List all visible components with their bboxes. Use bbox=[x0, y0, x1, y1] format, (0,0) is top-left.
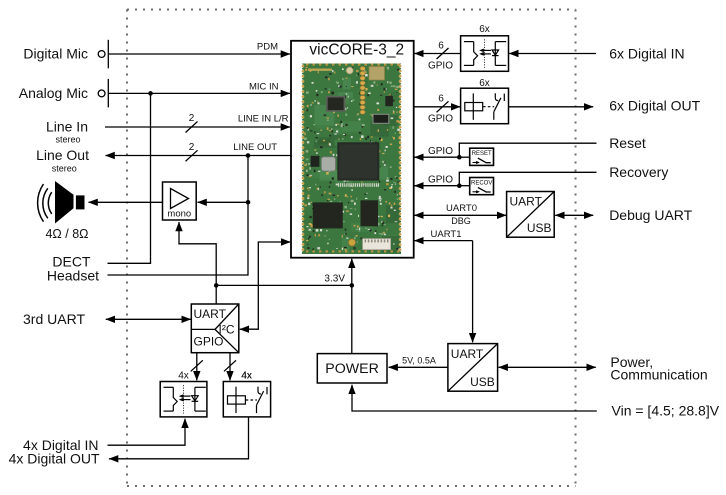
svg-text:Debug UART: Debug UART bbox=[609, 207, 692, 223]
svg-text:MIC IN: MIC IN bbox=[249, 82, 279, 93]
svg-text:stereo: stereo bbox=[52, 164, 77, 174]
svg-text:UART: UART bbox=[510, 195, 543, 209]
svg-text:Digital Mic: Digital Mic bbox=[23, 46, 88, 62]
svg-text:3.3V: 3.3V bbox=[324, 274, 345, 285]
svg-text:Communication: Communication bbox=[610, 366, 707, 382]
svg-text:LINE IN L/R: LINE IN L/R bbox=[238, 114, 289, 125]
svg-text:UART0: UART0 bbox=[446, 203, 477, 214]
svg-text:USB: USB bbox=[527, 221, 552, 235]
svg-text:6: 6 bbox=[438, 94, 444, 105]
svg-text:6x Digital IN: 6x Digital IN bbox=[609, 46, 684, 62]
svg-text:6x Digital OUT: 6x Digital OUT bbox=[609, 98, 700, 114]
svg-text:UART: UART bbox=[451, 347, 484, 361]
svg-text:6: 6 bbox=[438, 41, 444, 52]
svg-text:Recovery: Recovery bbox=[609, 164, 668, 180]
svg-text:UART: UART bbox=[194, 307, 227, 321]
svg-text:RECOV: RECOV bbox=[471, 181, 492, 187]
svg-text:4x Digital OUT: 4x Digital OUT bbox=[9, 451, 100, 467]
svg-text:3rd UART: 3rd UART bbox=[23, 311, 85, 327]
svg-text:GPIO: GPIO bbox=[428, 146, 453, 157]
svg-text:LINE OUT: LINE OUT bbox=[233, 142, 277, 153]
svg-text:I²C: I²C bbox=[219, 323, 235, 337]
svg-text:Line Out: Line Out bbox=[36, 147, 89, 163]
svg-text:5V, 0.5A: 5V, 0.5A bbox=[402, 355, 436, 365]
svg-text:USB: USB bbox=[470, 375, 495, 389]
svg-text:4x: 4x bbox=[178, 371, 189, 382]
svg-text:DBG: DBG bbox=[451, 216, 471, 226]
svg-text:vicCORE-3_2: vicCORE-3_2 bbox=[309, 41, 404, 58]
svg-text:PDM: PDM bbox=[257, 42, 278, 53]
svg-text:mono: mono bbox=[167, 209, 191, 220]
svg-text:4x: 4x bbox=[241, 371, 252, 382]
svg-text:2: 2 bbox=[189, 113, 195, 124]
svg-text:6x: 6x bbox=[479, 78, 490, 89]
svg-text:2: 2 bbox=[189, 142, 195, 153]
svg-text:UART1: UART1 bbox=[431, 229, 462, 240]
svg-text:Headset: Headset bbox=[47, 267, 99, 283]
svg-text:stereo: stereo bbox=[55, 135, 80, 145]
svg-text:Analog Mic: Analog Mic bbox=[19, 85, 88, 101]
svg-text:GPIO: GPIO bbox=[428, 174, 453, 185]
svg-text:Vin = [4.5; 28.8]V: Vin = [4.5; 28.8]V bbox=[612, 402, 720, 418]
svg-text:GPIO: GPIO bbox=[428, 114, 453, 125]
svg-text:Line In: Line In bbox=[46, 119, 88, 135]
svg-text:POWER: POWER bbox=[325, 361, 379, 377]
svg-text:6x: 6x bbox=[479, 24, 490, 35]
svg-text:RESET: RESET bbox=[472, 151, 492, 157]
svg-text:Reset: Reset bbox=[609, 135, 646, 151]
svg-text:GPIO: GPIO bbox=[428, 61, 453, 72]
svg-text:4Ω / 8Ω: 4Ω / 8Ω bbox=[45, 227, 88, 241]
svg-text:GPIO: GPIO bbox=[194, 335, 224, 349]
